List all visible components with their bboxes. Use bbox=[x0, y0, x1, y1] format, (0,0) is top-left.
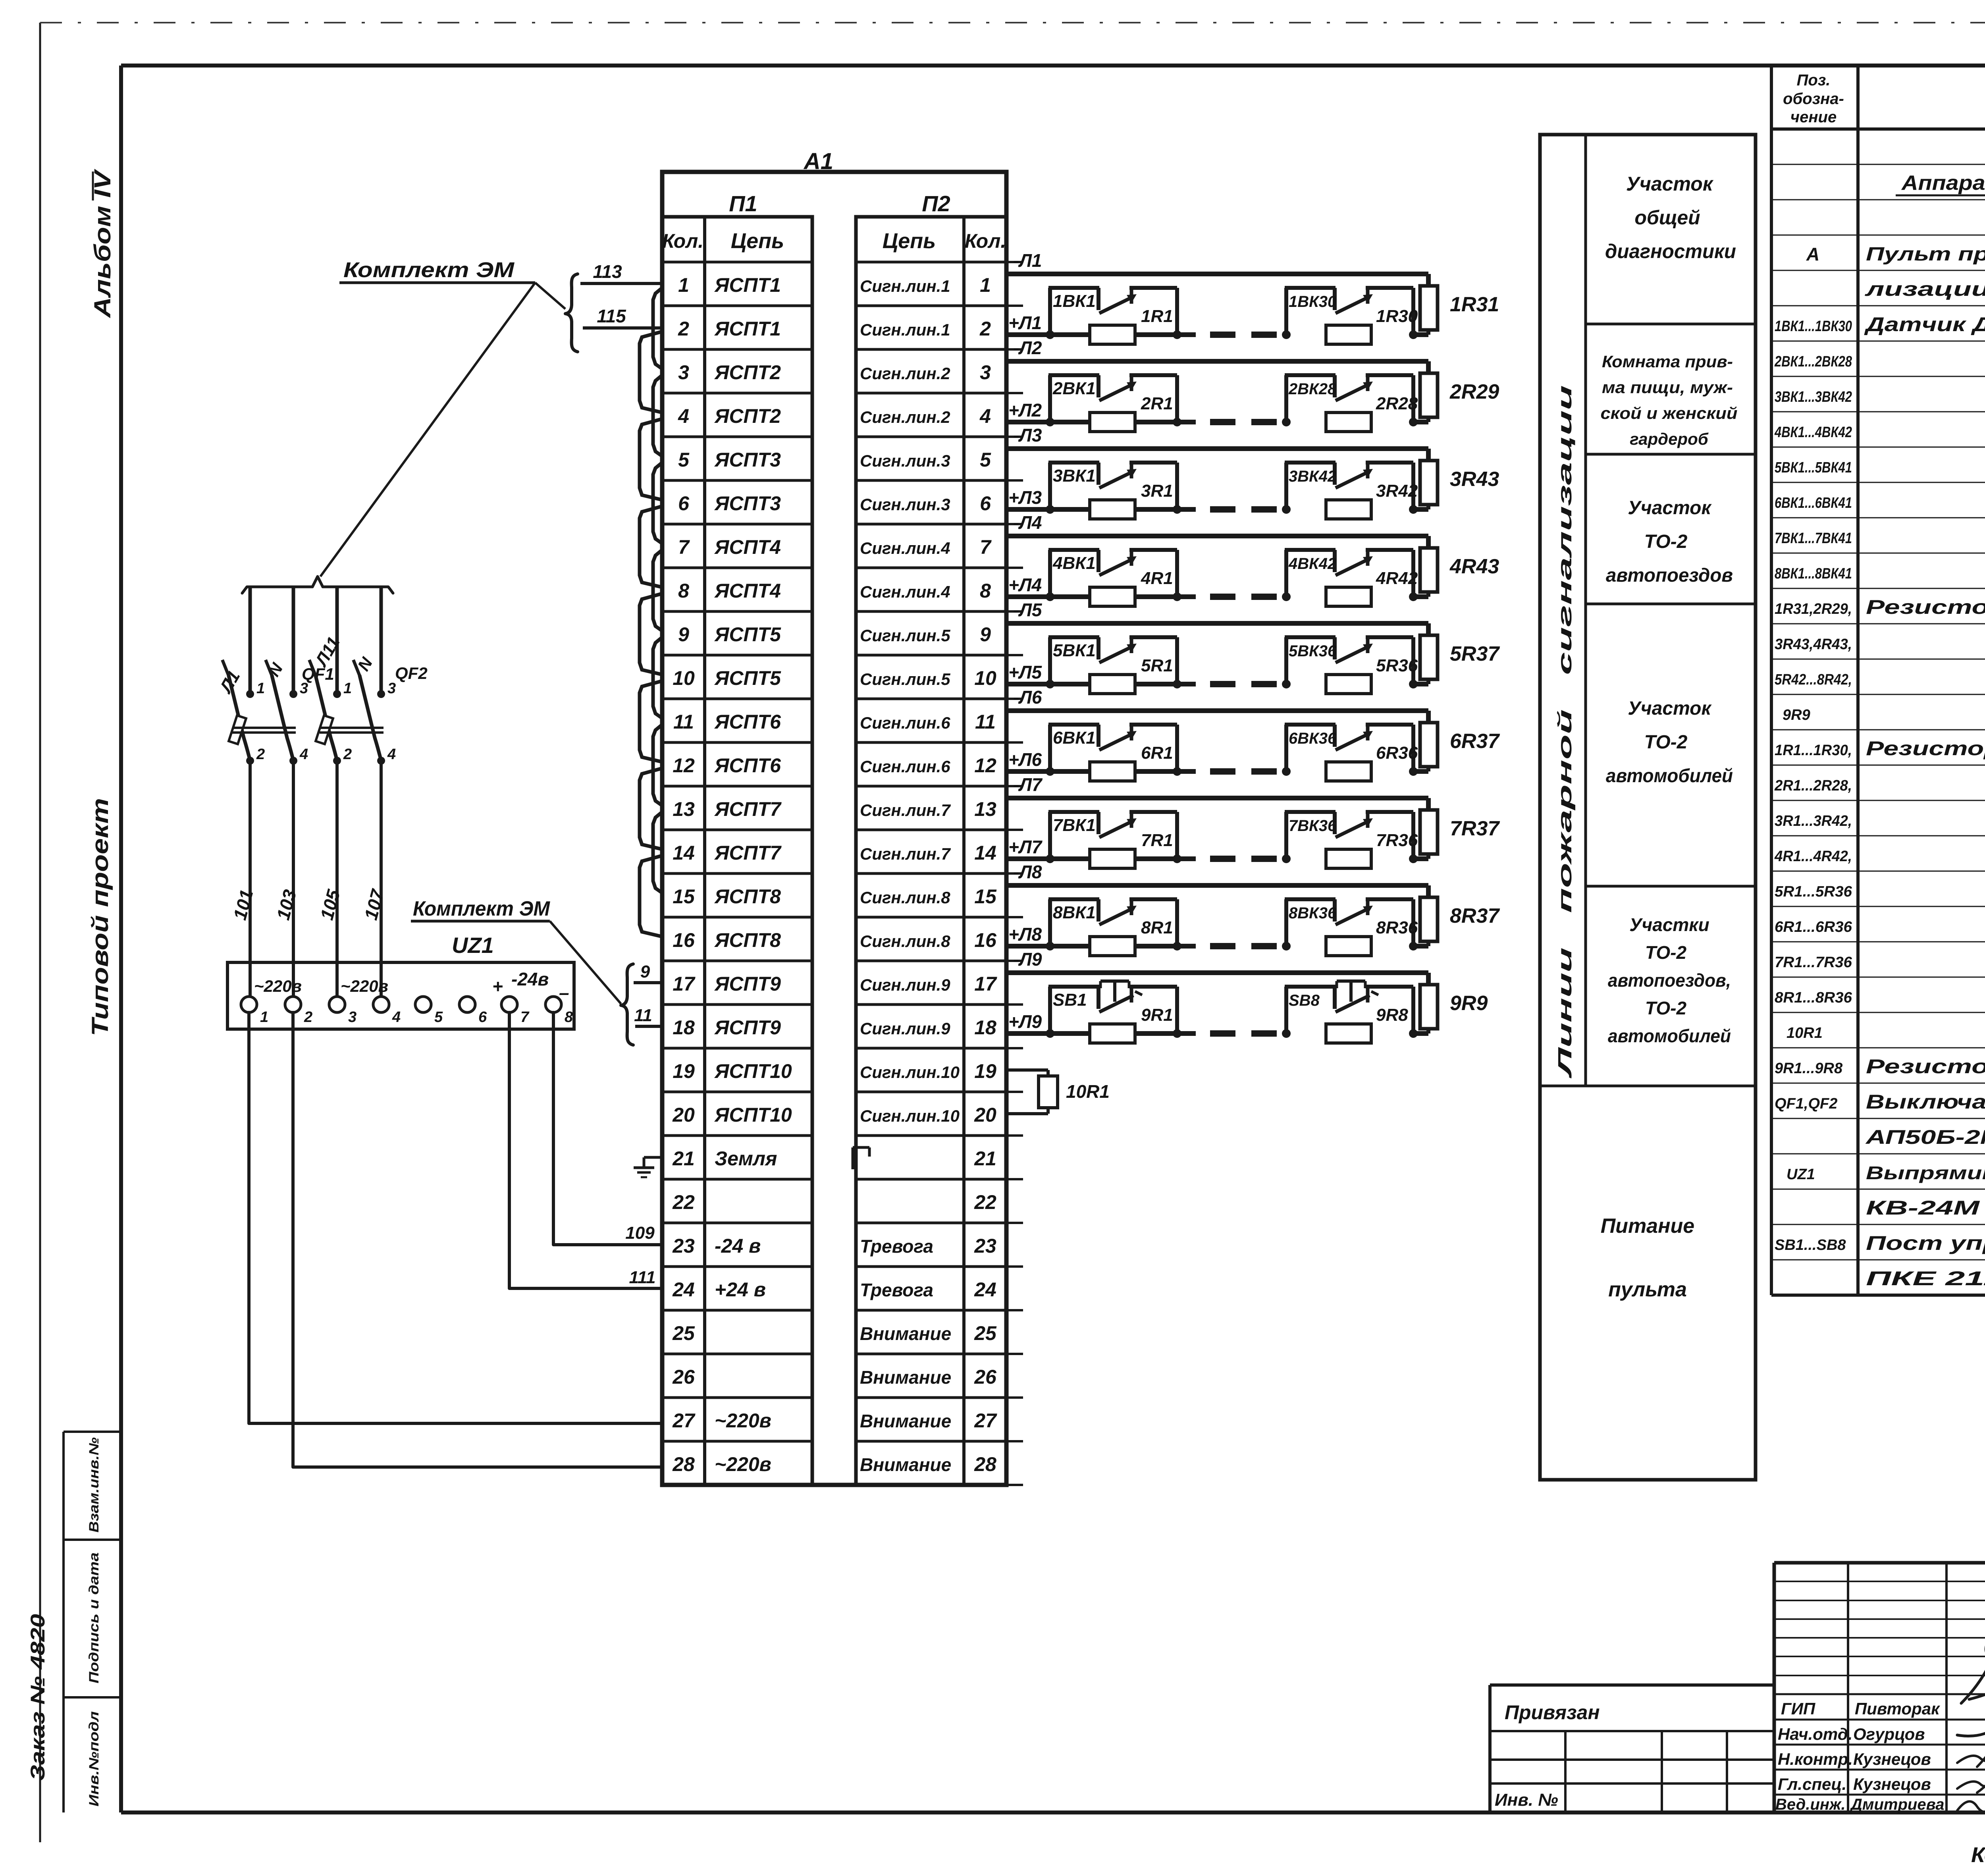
wire +Л3 segment 3 bbox=[1413, 507, 1428, 512]
svg-text:1: 1 bbox=[678, 274, 689, 296]
svg-text:UZ1: UZ1 bbox=[1786, 1166, 1815, 1183]
detector 7ВК1 bbox=[1046, 812, 1181, 868]
svg-text:Внимание: Внимание bbox=[860, 1411, 951, 1431]
label Комплект ЭМ (top) bbox=[339, 258, 535, 283]
svg-text:Сигн.лин.4: Сигн.лин.4 bbox=[860, 539, 950, 557]
svg-text:+Л7: +Л7 bbox=[1008, 837, 1043, 857]
svg-text:Аппаратура по месту: Аппаратура по месту bbox=[1901, 172, 1985, 195]
svg-text:5: 5 bbox=[434, 1009, 443, 1026]
svg-text:24: 24 bbox=[974, 1278, 996, 1301]
svg-text:10: 10 bbox=[673, 667, 695, 689]
svg-text:5ВК1: 5ВК1 bbox=[1053, 641, 1096, 660]
svg-text:Кузнецов: Кузнецов bbox=[1853, 1775, 1931, 1793]
svg-text:15: 15 bbox=[673, 885, 695, 908]
wire 111 from UZ1 pin 7 to row 24 bbox=[509, 1012, 662, 1288]
svg-text:Участок: Участок bbox=[1628, 497, 1712, 519]
svg-text:2: 2 bbox=[304, 1009, 312, 1026]
svg-text:1ВК30: 1ВК30 bbox=[1289, 293, 1336, 310]
svg-text:Кол.: Кол. bbox=[662, 230, 703, 252]
svg-text:П2: П2 bbox=[922, 191, 950, 216]
svg-text:Сигн.лин.4: Сигн.лин.4 bbox=[860, 582, 950, 601]
svg-text:11: 11 bbox=[673, 711, 694, 733]
svg-text:2: 2 bbox=[678, 318, 689, 340]
svg-text:Копировал Волкова: Копировал Волкова bbox=[1971, 1843, 1985, 1867]
wire +Л8 segment 3 bbox=[1413, 944, 1428, 949]
svg-text:8R1: 8R1 bbox=[1141, 918, 1173, 937]
signatures scribbles bbox=[1957, 1632, 1985, 1814]
svg-text:4: 4 bbox=[392, 1009, 401, 1026]
svg-text:АП50Б-2МТ,Iн.р=4А,Iотс,=3,5Iн.: АП50Б-2МТ,Iн.р=4А,Iотс,=3,5Iн.р bbox=[1865, 1126, 1985, 1148]
svg-text:13: 13 bbox=[974, 798, 996, 820]
svg-text:8ВК1: 8ВК1 bbox=[1053, 903, 1096, 922]
svg-text:Сигн.лин.6: Сигн.лин.6 bbox=[860, 757, 950, 776]
svg-text:6ВК36: 6ВК36 bbox=[1289, 730, 1337, 747]
svg-text:Сигн.лин.9: Сигн.лин.9 bbox=[860, 976, 950, 994]
zone label Участки ТО-2 автопоездов, ТО-2 автомобилей bbox=[1608, 914, 1731, 1046]
svg-text:2: 2 bbox=[256, 746, 265, 763]
svg-text:Внимание: Внимание bbox=[860, 1367, 951, 1388]
svg-text:7R37: 7R37 bbox=[1450, 817, 1500, 840]
zone label Участок ТО-2 автомобилей bbox=[1606, 698, 1733, 787]
svg-text:П1: П1 bbox=[729, 191, 757, 216]
end-of-line resistor 1R31 bbox=[1420, 286, 1438, 335]
leader line to cable brace bbox=[535, 283, 565, 309]
wire from UZ1 pin 1 to row 27 ~220в bbox=[249, 1012, 662, 1423]
svg-text:12: 12 bbox=[974, 754, 996, 777]
svg-text:ЯСПТ6: ЯСПТ6 bbox=[714, 754, 781, 777]
svg-text:~220в: ~220в bbox=[715, 1453, 771, 1475]
wire -Л8 drop to end resistor bbox=[1426, 885, 1431, 897]
svg-text:4ВК1...4ВК42: 4ВК1...4ВК42 bbox=[1774, 424, 1852, 441]
svg-text:1R1...1R30,: 1R1...1R30, bbox=[1775, 742, 1852, 759]
ground symbol row 21 bbox=[634, 1157, 662, 1177]
svg-text:4R1...4R42,: 4R1...4R42, bbox=[1774, 848, 1852, 865]
zone label Комната приема пищи bbox=[1601, 352, 1738, 448]
svg-text:1: 1 bbox=[980, 274, 991, 296]
svg-text:5ВК36: 5ВК36 bbox=[1289, 642, 1337, 660]
wire +Л7 segment 1 bbox=[1006, 856, 1196, 861]
svg-text:чение: чение bbox=[1790, 108, 1837, 126]
svg-text:Сигн.лин.9: Сигн.лин.9 bbox=[860, 1019, 950, 1038]
svg-text:Подпись и дата: Подпись и дата bbox=[87, 1552, 102, 1683]
svg-text:Тревога: Тревога bbox=[860, 1236, 933, 1257]
svg-text:ЯСПТ4: ЯСПТ4 bbox=[714, 580, 781, 602]
svg-text:5R37: 5R37 bbox=[1450, 642, 1500, 665]
svg-text:3: 3 bbox=[387, 680, 396, 697]
svg-text:Сигн.лин.5: Сигн.лин.5 bbox=[860, 670, 950, 688]
wire -Л4 drop to end resistor bbox=[1426, 536, 1431, 548]
svg-text:15: 15 bbox=[974, 885, 997, 908]
wire from UZ1 pin 2 to row 28 ~220в bbox=[293, 1012, 662, 1467]
svg-text:3R1...3R42,: 3R1...3R42, bbox=[1775, 813, 1852, 829]
left margin stamp column bbox=[64, 1432, 121, 1812]
svg-text:6R1...6R36: 6R1...6R36 bbox=[1775, 919, 1852, 935]
zone label Питание пульта bbox=[1601, 1215, 1694, 1301]
wire -Л2 bbox=[1006, 359, 1428, 364]
svg-text:Внимание: Внимание bbox=[860, 1323, 951, 1344]
svg-text:Цепь: Цепь bbox=[731, 229, 784, 253]
wire 115 bbox=[583, 306, 662, 328]
svg-text:3: 3 bbox=[678, 361, 689, 384]
svg-text:3ВК1: 3ВК1 bbox=[1053, 466, 1096, 486]
svg-text:10: 10 bbox=[974, 667, 996, 689]
svg-text:-Л7: -Л7 bbox=[1013, 774, 1043, 795]
svg-text:Сигн.лин.6: Сигн.лин.6 bbox=[860, 713, 950, 732]
svg-text:20: 20 bbox=[974, 1104, 996, 1126]
svg-text:-Л5: -Л5 bbox=[1013, 600, 1043, 620]
wire N drop (QF1) bbox=[292, 587, 295, 694]
svg-text:Пульт приемный пожарной сигна-: Пульт приемный пожарной сигна- bbox=[1866, 244, 1985, 265]
svg-text:Сигн.лин.10: Сигн.лин.10 bbox=[860, 1063, 960, 1082]
svg-text:1: 1 bbox=[343, 680, 352, 697]
svg-text:автопоездов,: автопоездов, bbox=[1608, 970, 1731, 991]
detector 4ВК42 bbox=[1282, 550, 1418, 606]
svg-text:20: 20 bbox=[672, 1104, 695, 1126]
svg-text:Кол.: Кол. bbox=[965, 230, 1006, 252]
svg-text:~220в: ~220в bbox=[341, 977, 388, 995]
svg-text:3ВК1...3ВК42: 3ВК1...3ВК42 bbox=[1775, 389, 1852, 405]
wire continuation dashes 5 bbox=[1210, 681, 1277, 687]
svg-text:1R1: 1R1 bbox=[1141, 307, 1173, 326]
wire -Л6 bbox=[1006, 708, 1428, 713]
end-of-line resistor 9R9 bbox=[1420, 985, 1438, 1033]
svg-text:Инв. №: Инв. № bbox=[1495, 1790, 1558, 1810]
svg-text:ТО-2: ТО-2 bbox=[1644, 732, 1688, 753]
svg-text:3: 3 bbox=[300, 680, 308, 697]
wire 109 from UZ1 pin 8 to row 23 bbox=[553, 1012, 662, 1245]
rectifier UZ1 box bbox=[227, 962, 574, 1029]
svg-text:6: 6 bbox=[478, 1009, 487, 1026]
svg-text:Пивторак: Пивторак bbox=[1855, 1699, 1940, 1718]
svg-text:1R31: 1R31 bbox=[1450, 293, 1499, 316]
svg-text:3ВК42: 3ВК42 bbox=[1289, 468, 1336, 485]
svg-text:4ВК1: 4ВК1 bbox=[1052, 553, 1096, 573]
svg-text:Резистор МЛТ-0,5-2ком ±5%: Резистор МЛТ-0,5-2ком ±5% bbox=[1866, 737, 1985, 760]
svg-text:Сигн.лин.3: Сигн.лин.3 bbox=[860, 451, 950, 470]
svg-text:7R1...7R36: 7R1...7R36 bbox=[1775, 954, 1852, 971]
svg-text:+: + bbox=[492, 976, 503, 997]
svg-text:1R31,2R29,: 1R31,2R29, bbox=[1775, 601, 1852, 617]
wire 101 bbox=[229, 761, 257, 997]
detector 6ВК1 bbox=[1046, 725, 1181, 781]
svg-text:Вед.инж.: Вед.инж. bbox=[1775, 1796, 1846, 1813]
detector 7ВК36 bbox=[1282, 812, 1418, 868]
svg-text:5R1: 5R1 bbox=[1141, 656, 1173, 675]
label Альбом IV (rotated) bbox=[90, 169, 116, 319]
svg-text:8ВК36: 8ВК36 bbox=[1289, 904, 1337, 922]
svg-text:5: 5 bbox=[678, 449, 690, 471]
terminal UZ1 pin 5 bbox=[415, 997, 443, 1026]
svg-text:диагностики: диагностики bbox=[1605, 240, 1736, 262]
detector 2ВК28 bbox=[1282, 375, 1418, 432]
wire -Л6 drop to end resistor bbox=[1426, 711, 1431, 723]
svg-text:19: 19 bbox=[974, 1060, 996, 1082]
detector SВ1 bbox=[1046, 981, 1181, 1043]
wire +Л5 segment 3 bbox=[1413, 682, 1428, 686]
wire +Л9 segment 3 bbox=[1413, 1031, 1428, 1036]
svg-text:19: 19 bbox=[673, 1060, 695, 1082]
brace for wires 9/11 bbox=[621, 964, 633, 1045]
svg-text:QF2: QF2 bbox=[395, 664, 428, 683]
svg-text:Цепь: Цепь bbox=[883, 229, 936, 253]
svg-text:+Л4: +Л4 bbox=[1008, 575, 1042, 595]
svg-text:4: 4 bbox=[678, 405, 689, 427]
svg-text:2: 2 bbox=[343, 746, 352, 763]
wire -Л3 drop to end resistor bbox=[1426, 449, 1431, 461]
svg-text:9: 9 bbox=[640, 962, 650, 981]
wire -Л5 drop to end resistor bbox=[1426, 623, 1431, 635]
resistor 10R1 bbox=[1006, 1070, 1058, 1114]
svg-text:10R1: 10R1 bbox=[1066, 1081, 1110, 1102]
svg-text:А: А bbox=[1806, 244, 1819, 264]
svg-text:6ВК1: 6ВК1 bbox=[1053, 728, 1096, 748]
terminal UZ1 pin 4 bbox=[373, 997, 401, 1026]
svg-text:18: 18 bbox=[974, 1016, 996, 1039]
svg-text:2R1...2R28,: 2R1...2R28, bbox=[1774, 777, 1852, 794]
wire -Л9 bbox=[1006, 970, 1428, 975]
detector 8ВК1 bbox=[1046, 899, 1181, 956]
wire continuation dashes 7 bbox=[1210, 856, 1277, 862]
svg-text:1: 1 bbox=[256, 680, 265, 697]
terminal UZ1 pin 1 bbox=[241, 997, 268, 1026]
svg-text:Взам.инв.№: Взам.инв.№ bbox=[87, 1437, 102, 1533]
svg-text:7: 7 bbox=[520, 1009, 530, 1026]
svg-text:-24в: -24в bbox=[511, 969, 549, 989]
svg-text:111: 111 bbox=[629, 1268, 656, 1287]
svg-text:Сигн.лин.2: Сигн.лин.2 bbox=[860, 408, 950, 426]
wire -Л2 drop to end resistor bbox=[1426, 361, 1431, 373]
wire +Л4 segment 3 bbox=[1413, 594, 1428, 599]
svg-text:6: 6 bbox=[678, 492, 690, 515]
svg-text:5ВК1...5ВК41: 5ВК1...5ВК41 bbox=[1775, 459, 1852, 476]
svg-text:-Л9: -Л9 bbox=[1013, 949, 1042, 970]
wire 113 bbox=[580, 261, 662, 283]
svg-text:25: 25 bbox=[974, 1322, 997, 1344]
connector П2 table bbox=[856, 217, 1006, 1485]
svg-text:Заказ № 4820: Заказ № 4820 bbox=[27, 1614, 49, 1781]
svg-text:26: 26 bbox=[974, 1366, 997, 1388]
svg-text:9R9: 9R9 bbox=[1783, 707, 1810, 723]
svg-text:7R1: 7R1 bbox=[1141, 831, 1173, 850]
svg-text:6R37: 6R37 bbox=[1450, 730, 1500, 753]
svg-text:8R36: 8R36 bbox=[1376, 918, 1418, 937]
svg-text:2ВК1: 2ВК1 bbox=[1052, 379, 1096, 398]
svg-text:24: 24 bbox=[672, 1278, 695, 1301]
wire continuation dashes 1 bbox=[1210, 332, 1277, 338]
svg-text:4R43: 4R43 bbox=[1449, 555, 1499, 578]
svg-text:9R9: 9R9 bbox=[1450, 992, 1488, 1015]
svg-text:7ВК1...7ВК41: 7ВК1...7ВК41 bbox=[1775, 530, 1852, 547]
svg-text:Типовой проект: Типовой проект bbox=[87, 798, 113, 1036]
svg-text:3R1: 3R1 bbox=[1141, 481, 1173, 501]
svg-text:1ВК1: 1ВК1 bbox=[1053, 291, 1096, 311]
svg-text:Сигн.лин.3: Сигн.лин.3 bbox=[860, 495, 950, 514]
svg-text:Участок: Участок bbox=[1626, 173, 1714, 195]
svg-text:1ВК1...1ВК30: 1ВК1...1ВК30 bbox=[1775, 318, 1852, 335]
svg-text:ЯСПТ5: ЯСПТ5 bbox=[714, 623, 781, 646]
svg-text:автомобилей: автомобилей bbox=[1608, 1026, 1731, 1046]
svg-text:Линии пожарной сигнализаци: Линии пожарной сигнализации bbox=[1555, 385, 1576, 1078]
svg-text:автопоездов: автопоездов bbox=[1606, 565, 1733, 586]
svg-text:5R36: 5R36 bbox=[1376, 656, 1418, 675]
svg-text:SВ8: SВ8 bbox=[1289, 992, 1320, 1009]
svg-text:ТО-2: ТО-2 bbox=[1645, 998, 1687, 1018]
end-of-line resistor 5R37 bbox=[1420, 635, 1438, 684]
svg-text:4ВК42: 4ВК42 bbox=[1288, 555, 1336, 573]
end-of-line resistor 8R37 bbox=[1420, 897, 1438, 946]
svg-text:Выключатель автоматический: Выключатель автоматический bbox=[1866, 1091, 1985, 1113]
svg-text:4R42: 4R42 bbox=[1376, 569, 1418, 588]
wire +Л7 segment 3 bbox=[1413, 856, 1428, 861]
wire -Л4 bbox=[1006, 534, 1428, 538]
wire -Л7 bbox=[1006, 796, 1428, 800]
wire continuation dashes 8 bbox=[1210, 943, 1277, 949]
wire +Л4 segment 1 bbox=[1006, 594, 1196, 599]
component table header Поз. обозначение bbox=[1783, 71, 1844, 126]
wire 105 bbox=[316, 761, 344, 997]
detector 1ВК1 bbox=[1046, 288, 1181, 344]
svg-text:~220в: ~220в bbox=[254, 977, 302, 995]
svg-text:18: 18 bbox=[673, 1016, 695, 1039]
svg-text:-Л6: -Л6 bbox=[1013, 687, 1042, 708]
wire continuation dashes 2 bbox=[1210, 419, 1277, 425]
svg-text:Комплект ЭМ: Комплект ЭМ bbox=[343, 258, 515, 282]
svg-text:ЯСПТ3: ЯСПТ3 bbox=[714, 449, 781, 471]
svg-text:-24 в: -24 в bbox=[715, 1235, 761, 1257]
svg-text:8ВК1...8ВК41: 8ВК1...8ВК41 bbox=[1775, 565, 1852, 582]
svg-text:9R8: 9R8 bbox=[1376, 1005, 1408, 1025]
detector 5ВК36 bbox=[1282, 637, 1418, 694]
main title block frame bbox=[1774, 1563, 1985, 1812]
svg-text:1: 1 bbox=[260, 1009, 268, 1026]
svg-text:Участки: Участки bbox=[1629, 914, 1709, 935]
svg-text:Резистор МЛТ-0,5-1,5ком ±5%: Резистор МЛТ-0,5-1,5ком ±5% bbox=[1866, 596, 1985, 618]
end-of-line resistor 7R37 bbox=[1420, 810, 1438, 859]
svg-text:6ВК1...6ВК41: 6ВК1...6ВК41 bbox=[1775, 495, 1852, 511]
svg-text:ской и женский: ской и женский bbox=[1601, 404, 1738, 422]
chassis symbol right of Земля bbox=[853, 1147, 869, 1169]
svg-text:7ВК1: 7ВК1 bbox=[1053, 816, 1096, 835]
svg-text:9R1: 9R1 bbox=[1141, 1005, 1173, 1025]
svg-text:-Л3: -Л3 bbox=[1013, 425, 1042, 445]
svg-text:6R1: 6R1 bbox=[1141, 743, 1173, 763]
svg-text:ЯСПТ2: ЯСПТ2 bbox=[714, 361, 781, 384]
svg-text:Н.контр.: Н.контр. bbox=[1778, 1750, 1853, 1768]
end-of-line resistor 4R43 bbox=[1420, 548, 1438, 597]
svg-text:Сигн.лин.7: Сигн.лин.7 bbox=[860, 844, 951, 863]
svg-text:27: 27 bbox=[672, 1409, 696, 1432]
svg-text:2R29: 2R29 bbox=[1449, 380, 1499, 403]
svg-text:4R1: 4R1 bbox=[1141, 569, 1173, 588]
wire 107 bbox=[360, 761, 388, 997]
svg-text:ЯСПТ7: ЯСПТ7 bbox=[714, 798, 782, 820]
wire -Л8 bbox=[1006, 883, 1428, 888]
svg-text:22: 22 bbox=[672, 1191, 695, 1213]
svg-text:обозна-: обозна- bbox=[1783, 90, 1844, 108]
svg-text:Огурцов: Огурцов bbox=[1853, 1725, 1925, 1743]
wire continuation dashes 6 bbox=[1210, 768, 1277, 775]
breaker QF1 link bar bbox=[232, 728, 296, 733]
svg-text:26: 26 bbox=[672, 1366, 695, 1388]
wire -Л1 drop to end resistor bbox=[1426, 274, 1431, 286]
wire +Л3 segment 1 bbox=[1006, 507, 1196, 512]
svg-text:+Л6: +Л6 bbox=[1008, 749, 1042, 770]
svg-text:8: 8 bbox=[678, 580, 689, 602]
svg-text:5R1...5R36: 5R1...5R36 bbox=[1775, 883, 1852, 900]
svg-text:2R28: 2R28 bbox=[1376, 394, 1418, 413]
wire -Л1 bbox=[1006, 272, 1428, 276]
svg-text:Участок: Участок bbox=[1628, 698, 1712, 719]
wire -Л9 drop to end resistor bbox=[1426, 973, 1431, 985]
breaker QF2 pole 3-4 bbox=[353, 660, 385, 765]
svg-text:Питание: Питание bbox=[1601, 1215, 1694, 1238]
end-of-line resistor 6R37 bbox=[1420, 723, 1438, 771]
terminal UZ1 pin 8 bbox=[545, 997, 573, 1026]
svg-text:16: 16 bbox=[673, 929, 695, 951]
svg-text:2ВК1...2ВК28: 2ВК1...2ВК28 bbox=[1774, 353, 1852, 370]
wire Л1 drop bbox=[249, 587, 252, 694]
svg-text:9: 9 bbox=[980, 623, 991, 646]
wire continuation dashes 4 bbox=[1210, 594, 1277, 600]
svg-text:ЯСПТ9: ЯСПТ9 bbox=[714, 973, 781, 995]
svg-text:общей: общей bbox=[1634, 206, 1700, 229]
svg-text:28: 28 bbox=[672, 1453, 695, 1475]
svg-text:QF1,QF2: QF1,QF2 bbox=[1775, 1095, 1837, 1112]
svg-text:2: 2 bbox=[979, 318, 991, 340]
svg-text:1R30: 1R30 bbox=[1376, 307, 1418, 326]
svg-text:автомобилей: автомобилей bbox=[1606, 765, 1733, 787]
detector 6ВК36 bbox=[1282, 725, 1418, 781]
svg-text:23: 23 bbox=[672, 1235, 695, 1257]
svg-text:3R43: 3R43 bbox=[1450, 468, 1499, 491]
svg-text:ЯСПТ8: ЯСПТ8 bbox=[714, 929, 781, 951]
terminal UZ1 pin 3 bbox=[329, 997, 357, 1026]
svg-text:Сигн.лин.5: Сигн.лин.5 bbox=[860, 626, 950, 645]
wire continuation dashes 3 bbox=[1210, 506, 1277, 513]
svg-text:4: 4 bbox=[299, 746, 308, 763]
svg-text:Инв.№подл: Инв.№подл bbox=[87, 1711, 102, 1807]
svg-text:ПКЕ 212-1УЗ: ПКЕ 212-1УЗ bbox=[1866, 1267, 1985, 1290]
svg-text:3: 3 bbox=[348, 1009, 357, 1026]
label Комплект ЭМ (lower) bbox=[411, 897, 551, 921]
svg-text:23: 23 bbox=[974, 1235, 996, 1257]
svg-text:3R42: 3R42 bbox=[1376, 481, 1418, 501]
cable brace for wires 113 115 bbox=[565, 274, 578, 352]
svg-text:17: 17 bbox=[673, 973, 696, 995]
zone block outline bbox=[1540, 135, 1756, 1480]
svg-text:25: 25 bbox=[672, 1322, 695, 1344]
svg-text:Внимание: Внимание bbox=[860, 1454, 951, 1475]
svg-text:ЯСПТ6: ЯСПТ6 bbox=[714, 711, 781, 733]
svg-text:Сигн.лин.2: Сигн.лин.2 bbox=[860, 364, 950, 383]
svg-text:7ВК36: 7ВК36 bbox=[1289, 817, 1337, 835]
svg-text:Нач.отд.: Нач.отд. bbox=[1778, 1725, 1852, 1743]
end-of-line resistor 2R29 bbox=[1420, 373, 1438, 422]
svg-text:8R1...8R36: 8R1...8R36 bbox=[1775, 989, 1852, 1006]
svg-text:SВ1...SВ8: SВ1...SВ8 bbox=[1775, 1237, 1846, 1253]
svg-text:ЯСПТ4: ЯСПТ4 bbox=[714, 536, 781, 558]
svg-text:ЯСПТ10: ЯСПТ10 bbox=[714, 1104, 792, 1126]
svg-text:4: 4 bbox=[387, 746, 396, 763]
svg-text:Выпрямитель стабилизированный: Выпрямитель стабилизированный bbox=[1866, 1163, 1985, 1183]
svg-text:ЯСПТ7: ЯСПТ7 bbox=[714, 842, 782, 864]
svg-text:Привязан: Привязан bbox=[1505, 1701, 1600, 1724]
svg-text:ГИП: ГИП bbox=[1781, 1699, 1815, 1718]
svg-text:Сигн.лин.8: Сигн.лин.8 bbox=[860, 932, 950, 951]
wire +Л1 segment 3 bbox=[1413, 332, 1428, 337]
svg-text:ЯСПТ1: ЯСПТ1 bbox=[714, 274, 781, 296]
wire -Л7 drop to end resistor bbox=[1426, 798, 1431, 810]
